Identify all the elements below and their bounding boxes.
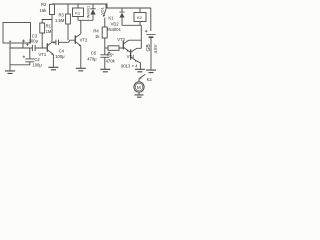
capacitor C3 xyxy=(26,43,29,46)
svg-text:K2: K2 xyxy=(137,15,143,20)
ground G2 xyxy=(48,67,58,70)
wire right edge to battery xyxy=(150,8,152,31)
svg-text:1M: 1M xyxy=(46,29,52,34)
svg-text:VT4: VT4 xyxy=(127,54,135,59)
relay contact K2b xyxy=(139,74,145,78)
svg-text:15k: 15k xyxy=(40,8,48,13)
wire motor top xyxy=(138,79,140,82)
svg-text:M: M xyxy=(137,85,141,90)
svg-text:K1: K1 xyxy=(75,11,81,16)
resistor R3 xyxy=(66,14,71,24)
svg-text:R3: R3 xyxy=(59,12,65,17)
svg-text:VD1: VD1 xyxy=(99,7,104,15)
wire motor bottom xyxy=(138,92,140,95)
svg-text:C5: C5 xyxy=(91,51,97,56)
svg-text:9013 × 4: 9013 × 4 xyxy=(121,64,138,69)
wire top rail left xyxy=(52,4,151,8)
wire left ground stem xyxy=(9,48,11,71)
transistor VT1 xyxy=(46,43,48,51)
resistor R5 xyxy=(105,47,108,49)
battery GB xyxy=(145,30,148,33)
sensor block B xyxy=(3,23,31,44)
resistor R1 xyxy=(40,23,45,33)
transistor VT2 xyxy=(74,35,76,43)
svg-text:VT2: VT2 xyxy=(80,38,88,43)
svg-text:K2: K2 xyxy=(147,77,153,82)
capacitor C2 xyxy=(10,48,34,65)
resistor R4 xyxy=(102,27,107,38)
relay coil K2 xyxy=(134,13,146,22)
svg-text:4.5V: 4.5V xyxy=(153,44,158,53)
diode VD1 xyxy=(90,4,95,20)
svg-text:K1: K1 xyxy=(108,16,114,21)
svg-text:R2: R2 xyxy=(41,2,47,7)
svg-text:GB: GB xyxy=(146,44,152,52)
ground G4 xyxy=(100,69,110,72)
svg-text:C2: C2 xyxy=(34,57,40,62)
svg-text:R5*: R5* xyxy=(107,52,114,57)
ground G1 xyxy=(5,71,15,74)
ground G6 xyxy=(146,70,156,73)
svg-text:470k: 470k xyxy=(106,58,116,63)
svg-text:C4: C4 xyxy=(59,49,65,54)
wire block pins to bus xyxy=(10,43,23,48)
svg-text:1k: 1k xyxy=(95,34,100,39)
transistor VT3 xyxy=(122,41,124,49)
ground G7 xyxy=(135,95,144,97)
svg-text:100μ: 100μ xyxy=(29,39,39,44)
resistor R2 xyxy=(50,4,55,14)
pin mark minus xyxy=(9,41,11,43)
svg-text:IN4001: IN4001 xyxy=(107,27,121,32)
capacitor C4 xyxy=(52,40,59,45)
svg-text:R4: R4 xyxy=(93,29,99,34)
svg-text:100μ: 100μ xyxy=(32,63,42,68)
svg-text:100μ: 100μ xyxy=(55,54,65,59)
wire VD2-K2 bottom bus xyxy=(122,25,141,48)
capacitor C5 xyxy=(100,48,109,69)
svg-text:470μ: 470μ xyxy=(87,57,97,62)
svg-text:VT3: VT3 xyxy=(117,37,125,42)
wire bus xyxy=(10,47,32,49)
svg-text:1.5M: 1.5M xyxy=(55,18,65,23)
transistor VT4 xyxy=(130,49,132,59)
motor M xyxy=(134,82,144,92)
ground G5 xyxy=(135,69,145,72)
svg-text:IN4001: IN4001 xyxy=(86,6,91,19)
relay contact K1 xyxy=(103,4,106,27)
pin mark plus xyxy=(22,40,25,43)
relay coil K1 xyxy=(73,8,84,17)
ground G3 xyxy=(76,68,86,71)
svg-text:VT1: VT1 xyxy=(39,52,47,57)
diode VD2 xyxy=(119,8,124,25)
